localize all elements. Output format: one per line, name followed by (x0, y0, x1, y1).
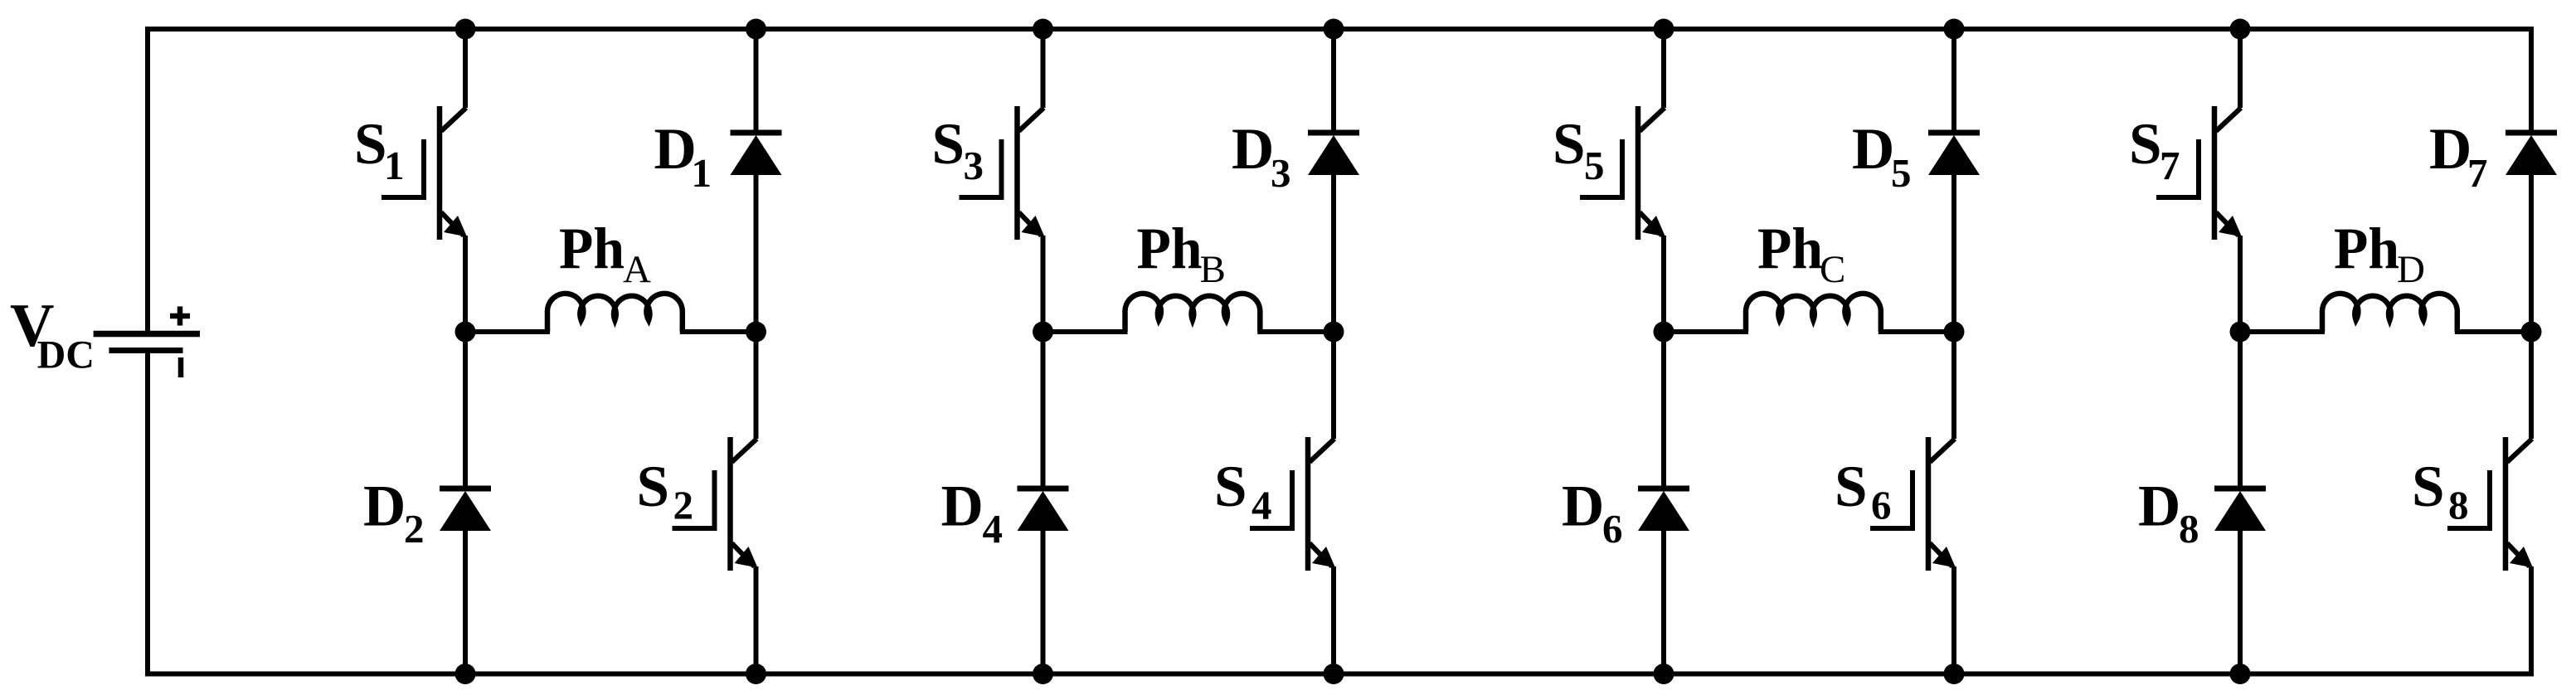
svg-text:D: D (2138, 474, 2180, 539)
diode D3 (1308, 133, 1359, 175)
wire: phase node to S6 collector (1951, 332, 1956, 439)
wire: phase node to S4 collector (1331, 332, 1336, 439)
wire: leg S5 collector from top bus (1661, 29, 1666, 108)
svg-text:D: D (1232, 117, 1274, 182)
transistor S6 (IGBT) (1870, 437, 1956, 571)
inductor PhC (phase winding) (1746, 294, 1881, 332)
label S6 (1835, 455, 1892, 528)
svg-text:S: S (932, 112, 965, 177)
battery plus sign (170, 307, 190, 326)
wire: leg S3 collector from top bus (1041, 29, 1046, 108)
transistor S5 (IGBT) (1580, 106, 1665, 240)
svg-text:4: 4 (983, 506, 1004, 552)
svg-text:2: 2 (404, 506, 425, 552)
inductor PhA (phase winding) (547, 294, 683, 332)
label D2 (363, 474, 425, 552)
svg-text:5: 5 (1584, 143, 1605, 188)
svg-text:5: 5 (1891, 150, 1912, 196)
svg-text:DC: DC (37, 333, 95, 377)
svg-text:3: 3 (964, 143, 984, 188)
transistor S2 (IGBT) (673, 437, 758, 571)
svg-text:S: S (2129, 112, 2162, 177)
wire: phase node to D2 cathode (463, 332, 468, 489)
diode D6 (1638, 489, 1689, 531)
svg-text:D: D (654, 117, 697, 182)
svg-text:C: C (1820, 248, 1845, 291)
wire: leg D3 cathode to top bus (1331, 29, 1336, 133)
label S7 (2129, 112, 2180, 188)
svg-text:3: 3 (1271, 150, 1291, 196)
diode D2 (440, 489, 491, 531)
wire: leg S1 emitter to phase node (463, 236, 468, 332)
svg-text:D: D (941, 474, 984, 539)
node: bottom bus junction leg D4 (1033, 664, 1053, 684)
node: bottom bus junction leg S6 (1944, 664, 1965, 684)
label S2 (637, 455, 694, 528)
svg-text:D: D (1852, 117, 1894, 182)
node: phase D winding right node (2521, 322, 2542, 343)
label PhB (1137, 217, 1226, 292)
wire: D6 anode to bottom bus (1661, 529, 1666, 674)
battery VDC top plate (94, 331, 200, 338)
transistor S7 (IGBT) (2156, 106, 2242, 240)
node: top bus junction leg D3 (1324, 19, 1344, 40)
label S5 (1553, 112, 1605, 188)
svg-text:S: S (1835, 455, 1868, 519)
wire: negative DC bus (bottom rail) (148, 353, 2531, 674)
svg-text:8: 8 (2448, 483, 2469, 528)
wire: positive DC bus (top rail) and left/right risers (148, 29, 2531, 331)
battery VDC bottom plate (109, 348, 182, 353)
battery minus sign (178, 357, 184, 377)
diode D4 (1018, 489, 1069, 531)
label D4 (941, 474, 1004, 552)
wire: S2 emitter to bottom bus (754, 566, 759, 674)
node: top bus junction leg S7 (2230, 19, 2251, 40)
label D3 (1232, 117, 1291, 196)
label D6 (1562, 474, 1623, 552)
node: phase B winding left node (1033, 322, 1053, 343)
label PhC (1757, 217, 1845, 292)
diode D7 (2506, 133, 2557, 175)
node: phase B winding right node (1324, 322, 1344, 343)
svg-text:S: S (2412, 455, 2445, 519)
wire: phase node to S2 collector (754, 332, 759, 439)
wire: leg D5 cathode to top bus (1951, 29, 1956, 133)
node: top bus junction leg D5 (1944, 19, 1965, 40)
wire: phase node to winding (left) (1043, 329, 1128, 334)
svg-text:S: S (354, 112, 387, 177)
node: top bus junction leg S3 (1033, 19, 1053, 40)
wire: phase node to winding (left) (1664, 329, 1748, 334)
svg-text:4: 4 (1252, 483, 1272, 528)
svg-text:1: 1 (384, 143, 405, 188)
diode D1 (731, 133, 782, 175)
wire: leg S7 emitter to phase node (2238, 236, 2243, 332)
label D8 (2138, 474, 2199, 552)
wire: leg S7 collector from top bus (2238, 29, 2243, 108)
wire: winding to phase node (right) (680, 329, 756, 334)
wire: winding to phase node (right) (1879, 329, 1954, 334)
svg-text:Ph: Ph (559, 217, 625, 282)
label S8 (2412, 455, 2469, 528)
wire: leg S3 emitter to phase node (1041, 236, 1046, 332)
svg-text:2: 2 (673, 483, 694, 528)
svg-text:S: S (637, 455, 670, 519)
node: bottom bus junction leg D6 (1654, 664, 1674, 684)
diode D5 (1928, 133, 1980, 175)
node: phase D winding left node (2230, 322, 2251, 343)
wire: S8 emitter to bottom bus (2529, 566, 2534, 674)
svg-text:D: D (2397, 248, 2425, 291)
label D7 (2429, 117, 2488, 196)
wire: phase node to S8 collector (2529, 332, 2534, 439)
inductor PhD (phase winding) (2322, 294, 2457, 332)
label PhA (559, 217, 651, 292)
wire: leg D7 cathode to top bus (2529, 29, 2534, 133)
label S1 (354, 112, 405, 188)
node: phase C winding left node (1654, 322, 1674, 343)
node: bottom bus junction leg S2 (746, 664, 766, 684)
wire: leg S5 emitter to phase node (1661, 236, 1666, 332)
wire: winding to phase node (right) (2455, 329, 2531, 334)
node: phase C winding right node (1944, 322, 1965, 343)
wire: phase node to winding (left) (2240, 329, 2325, 334)
svg-text:B: B (1200, 248, 1226, 291)
wire: D2 anode to bottom bus (463, 529, 468, 674)
label D5 (1852, 117, 1912, 196)
transistor S3 (IGBT) (960, 106, 1045, 240)
svg-text:8: 8 (2179, 506, 2199, 552)
node: bottom bus junction leg D8 (2230, 664, 2251, 684)
wire: leg D7 anode to phase node (2529, 173, 2534, 332)
wire: phase node to D6 cathode (1661, 332, 1666, 489)
label D1 (654, 117, 712, 196)
label VDC (10, 292, 95, 377)
transistor S8 (IGBT) (2447, 437, 2533, 571)
wire: D4 anode to bottom bus (1041, 529, 1046, 674)
svg-text:Ph: Ph (1137, 217, 1203, 282)
diode D8 (2214, 489, 2266, 531)
wire: leg D3 anode to phase node (1331, 173, 1336, 332)
node: top bus junction leg D1 (746, 19, 766, 40)
wire: phase node to winding (left) (465, 329, 550, 334)
wire: leg D1 cathode to top bus (754, 29, 759, 133)
inductor PhB (phase winding) (1125, 294, 1260, 332)
svg-text:D: D (1562, 474, 1604, 539)
label S4 (1214, 455, 1272, 528)
node: bottom bus junction leg S4 (1324, 664, 1344, 684)
wire: leg S1 collector from top bus (463, 29, 468, 108)
wire: D8 anode to bottom bus (2238, 529, 2243, 674)
svg-text:6: 6 (1602, 506, 1623, 552)
label S3 (932, 112, 984, 188)
wire: winding to phase node (right) (1257, 329, 1334, 334)
transistor S4 (IGBT) (1250, 437, 1335, 571)
svg-text:S: S (1214, 455, 1247, 519)
svg-text:D: D (2429, 117, 2472, 182)
svg-text:7: 7 (2467, 150, 2488, 196)
svg-text:S: S (1553, 112, 1586, 177)
svg-text:Ph: Ph (2334, 217, 2399, 282)
node: phase A winding left node (455, 322, 476, 343)
node: bottom bus junction leg D2 (455, 664, 476, 684)
label PhD (2334, 217, 2425, 292)
svg-text:1: 1 (692, 150, 712, 196)
transistor S1 (IGBT) (382, 106, 467, 240)
svg-text:A: A (623, 248, 651, 291)
wire: S4 emitter to bottom bus (1331, 566, 1336, 674)
svg-text:6: 6 (1871, 483, 1892, 528)
wire: leg D1 anode to phase node (754, 173, 759, 332)
node: phase A winding right node (746, 322, 766, 343)
node: top bus junction leg S5 (1654, 19, 1674, 40)
svg-text:7: 7 (2160, 143, 2180, 188)
wire: S6 emitter to bottom bus (1951, 566, 1956, 674)
node: top bus junction leg S1 (455, 19, 476, 40)
svg-text:D: D (363, 474, 406, 539)
wire: phase node to D8 cathode (2238, 332, 2243, 489)
wire: phase node to D4 cathode (1041, 332, 1046, 489)
svg-text:Ph: Ph (1757, 217, 1823, 282)
wire: leg D5 anode to phase node (1951, 173, 1956, 332)
